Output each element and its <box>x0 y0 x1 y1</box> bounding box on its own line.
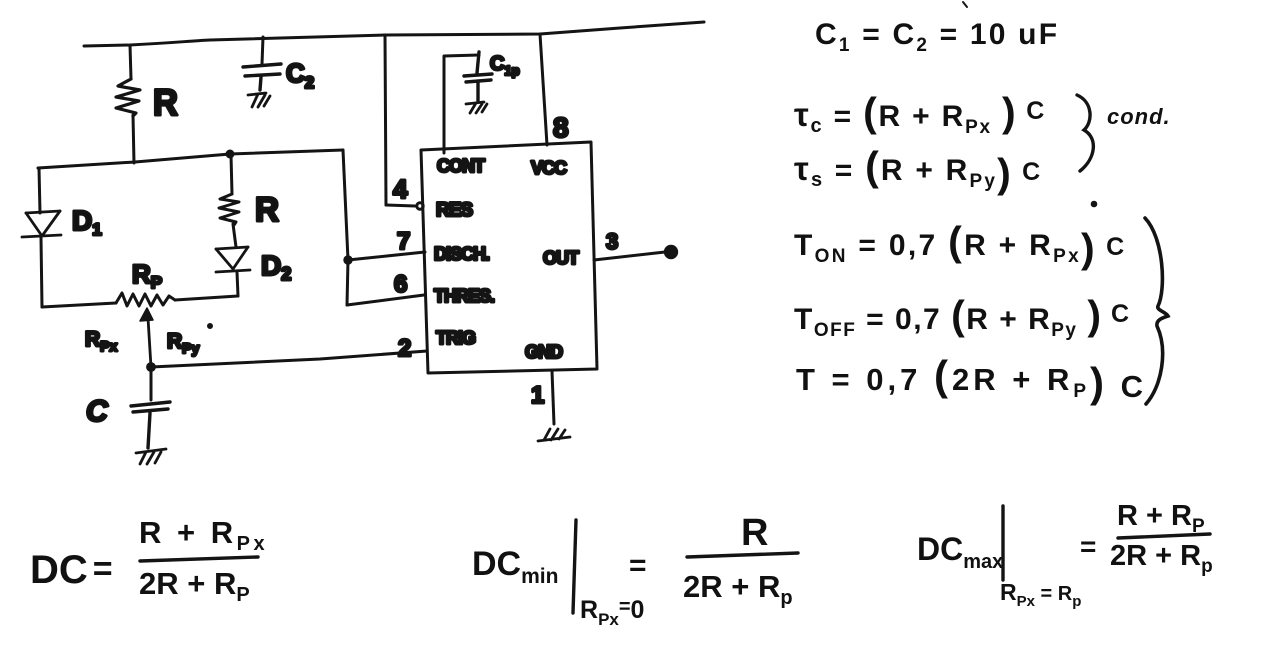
svg-text:2R + RP: 2R + RP <box>139 566 250 606</box>
wire right vertical to pins 7 6 <box>343 150 348 305</box>
wire rail to pin4 vertical <box>385 35 386 205</box>
wire GND pin1 <box>552 371 554 424</box>
resistor R1 bottom lead wire <box>133 115 134 163</box>
wire D1 bottom lead <box>41 238 42 307</box>
fraction bar <box>140 557 258 561</box>
diode D2 <box>216 247 250 272</box>
svg-text:8: 8 <box>553 112 569 143</box>
wire R2 top lead <box>231 155 232 194</box>
svg-text:7: 7 <box>397 228 410 255</box>
svg-text:1: 1 <box>531 382 544 409</box>
svg-text:R: R <box>741 512 768 554</box>
wire pot to D2 <box>175 296 238 300</box>
wire pin7 <box>348 252 425 260</box>
svg-text:R: R <box>153 82 178 123</box>
potentiometer wiper arrow <box>148 318 151 367</box>
potentiometer Rp <box>116 293 175 306</box>
node OUT terminal dot <box>665 246 676 257</box>
wire TRIG long <box>151 351 427 367</box>
svg-text:R + RP: R + RP <box>1117 500 1205 537</box>
stray dot right <box>1092 202 1096 206</box>
node junction wiper C trig <box>148 364 155 371</box>
svg-text:THRES.: THRES. <box>434 286 494 306</box>
evaluation bar min <box>573 520 576 613</box>
wire CONT to C1p <box>444 55 479 153</box>
ground below C1p <box>466 102 487 113</box>
svg-text:OUT: OUT <box>543 248 579 268</box>
capacitor C1p <box>464 52 492 101</box>
svg-text:2R + Rp: 2R + Rp <box>1110 540 1213 577</box>
svg-text:VCC: VCC <box>531 158 567 178</box>
wire R2 bottom lead <box>233 224 236 247</box>
capacitor C <box>131 402 170 448</box>
wire rail to pin8 vertical <box>540 34 547 145</box>
diode D1 <box>22 211 61 237</box>
wire pin4 horizontal <box>386 205 415 206</box>
op-amp U1 555 IC body <box>421 142 597 373</box>
ground below pin1 <box>538 429 570 441</box>
svg-text:cond.: cond. <box>1107 104 1171 129</box>
ground below C2 <box>248 93 270 107</box>
pin RES bubble <box>417 203 423 209</box>
svg-text:6: 6 <box>394 271 407 298</box>
svg-text:DISCH.: DISCH. <box>434 244 489 264</box>
stray dot <box>209 325 212 328</box>
capacitor C2 top lead wire <box>262 37 263 64</box>
wire C top lead <box>150 367 153 400</box>
resistor R1 top lead wire <box>130 45 131 79</box>
resistor R2 <box>219 194 239 225</box>
svg-text:C1 = C2 = 10 uF: C1 = C2 = 10 uF <box>815 18 1059 56</box>
svg-text:2R + Rp: 2R + Rp <box>683 569 793 609</box>
svg-text:R: R <box>255 191 279 229</box>
svg-text:=: = <box>1080 531 1096 562</box>
resistor R1 <box>116 79 140 116</box>
svg-text:C: C <box>86 395 109 428</box>
node junction R2 top <box>227 151 233 157</box>
node junction pin7 <box>345 257 351 263</box>
fraction bar max <box>1118 534 1210 538</box>
wire left rail <box>38 150 343 168</box>
svg-text:TRIG: TRIG <box>436 328 475 348</box>
wire OUT pin3 <box>594 252 665 260</box>
wire top VCC rail <box>84 22 704 46</box>
svg-text:DC=: DC= <box>30 548 113 592</box>
svg-text:4: 4 <box>393 174 408 204</box>
wire pin6 <box>347 295 424 305</box>
svg-text:=: = <box>629 549 647 582</box>
ground below C <box>136 449 166 464</box>
wire D1 top lead <box>39 168 40 213</box>
big brace right <box>1145 218 1168 404</box>
svg-text:3: 3 <box>606 229 618 254</box>
svg-text:RES: RES <box>436 200 472 221</box>
evaluation bar max <box>1001 506 1004 580</box>
brace cond <box>1077 95 1093 171</box>
svg-text:2: 2 <box>398 335 411 362</box>
capacitor C2 <box>243 64 281 90</box>
wire bottom left <box>42 303 116 307</box>
stray tick <box>963 2 967 7</box>
svg-text:GND: GND <box>525 342 563 362</box>
fraction bar min <box>687 553 798 557</box>
wire D2 bottom lead <box>237 272 238 296</box>
svg-text:CONT: CONT <box>437 156 485 176</box>
